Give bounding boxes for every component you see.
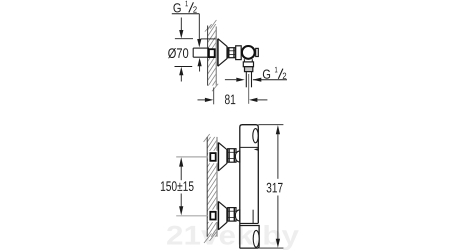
right G1/2 opposing arrow pointing right bbox=[225, 79, 236, 81]
outlet collar bbox=[243, 62, 253, 67]
spacer ring (side view) bbox=[236, 46, 242, 60]
white backing for top wall square bbox=[208, 151, 218, 163]
bar highlight ellipse top bbox=[253, 129, 258, 143]
dome connector top (front view) bbox=[235, 151, 239, 162]
wall hatching (side view) bbox=[208, 17, 217, 100]
dimension Ø70: bottom arrow bbox=[179, 67, 183, 75]
dimension 81: wall extension line bbox=[213, 88, 215, 105]
wall union square bottom (front view) bbox=[210, 212, 215, 220]
dimension Ø70: top arrow bbox=[180, 18, 182, 31]
dimension 81: left arrow bbox=[198, 99, 206, 101]
thermostat bar body (front view) bbox=[240, 125, 258, 249]
outlet pipe bbox=[246, 72, 251, 88]
small wedge at joint right end bbox=[254, 148, 259, 151]
housing highlight ellipse bbox=[253, 230, 259, 247]
dimension Ø70: bottom extension line bbox=[175, 66, 193, 68]
escutcheon bottom (front view) bbox=[218, 201, 227, 229]
wall union nut square (side view) bbox=[209, 49, 215, 57]
bar top cap joint line bbox=[240, 146, 258, 148]
valve body circle (side view) bbox=[242, 46, 255, 59]
label G1/2 right bbox=[263, 67, 286, 79]
dimension Ø70: top extension line bbox=[175, 38, 193, 40]
leader drop with arrow to pipe top bbox=[198, 14, 200, 40]
escutcheon top (front view) bbox=[218, 143, 227, 171]
loose hatch strokes (front view) bbox=[204, 134, 217, 243]
inner line above housing bbox=[252, 210, 254, 224]
loose hatch strokes above wall (side view) bbox=[205, 20, 218, 91]
outlet centerline bbox=[248, 74, 250, 104]
right G1/2 underline with left-pointing arrow bbox=[253, 79, 287, 81]
wall union square top (front view) bbox=[210, 153, 215, 161]
dimension 81: right arrow bbox=[249, 98, 257, 102]
dimension 81: text bbox=[225, 94, 235, 104]
dome connector bottom (front view) bbox=[235, 210, 239, 221]
outlet neck below circle bbox=[244, 59, 252, 62]
dimension Ø70: text bbox=[168, 48, 188, 58]
dimension 317: line and arrows bbox=[276, 125, 280, 134]
dimension 317: extension lines bbox=[258, 124, 283, 126]
wall left line (side view) bbox=[207, 26, 209, 86]
supply pipe stub G1/2 (side view) bbox=[193, 48, 209, 57]
watermark bbox=[167, 225, 299, 250]
label G1/2 top-left bbox=[173, 1, 196, 13]
white backing for bottom wall square bbox=[208, 210, 218, 222]
wall hatching (front view) bbox=[207, 127, 217, 249]
arrow up to pipe bottom bbox=[198, 58, 202, 66]
wall face line gray (side view) bbox=[215, 27, 217, 86]
wall left line (front view) bbox=[206, 137, 208, 237]
nut bottom (front view) bbox=[228, 208, 236, 222]
union nut (side view) bbox=[228, 48, 236, 58]
bottom housing (front view) bbox=[240, 226, 259, 249]
outlet thread G1/2 bbox=[245, 67, 253, 72]
dimension 150±15 bbox=[180, 166, 182, 180]
150 dimension gray extension lines bbox=[176, 156, 209, 158]
joint double line bar/housing bbox=[240, 222, 258, 224]
right cap (side view) bbox=[256, 48, 259, 56]
leader underline G1/2 top bbox=[172, 13, 200, 15]
escutcheon cone (side view) bbox=[218, 39, 227, 66]
dimension 317: text bbox=[267, 183, 283, 193]
wall face line gray (front view) bbox=[216, 137, 218, 237]
nut top (front view) bbox=[228, 149, 236, 163]
